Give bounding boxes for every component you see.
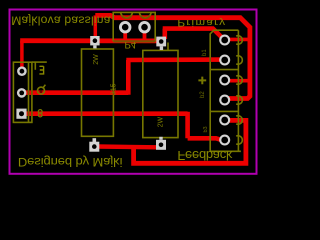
svg-text:2W: 2W — [157, 117, 164, 128]
wire: J1 pin3 across, down, to P3 pad 2 — [22, 112, 222, 140]
svg-text:2W: 2W — [93, 54, 100, 65]
small reference labels — [93, 49, 209, 133]
wire: P1 pad1 stub to right rail — [228, 38, 249, 42]
wire: P3 upper pad stub, lower rail, bottom run to junction — [134, 120, 246, 163]
svg-text:b2: b2 — [200, 91, 206, 98]
J1 pad 3 (square) — [16, 109, 26, 119]
svg-text:Feedback: Feedback — [177, 148, 233, 163]
wire: bottom run between square pads — [97, 144, 158, 149]
component W2b (switch) outline — [143, 50, 178, 137]
wire: J1 pin1 up to top net — [20, 41, 24, 71]
P4 screw bump A — [121, 13, 133, 18]
svg-text:315: 315 — [111, 83, 118, 95]
svg-text:b1: b1 — [202, 49, 208, 56]
svg-text:Designed by Majki: Designed by Majki — [18, 155, 122, 169]
text: Designed by Majki — [18, 155, 122, 169]
terminal pads P1.1 P1.2 P2.1 P2.2 P3.1 P3.2 — [219, 35, 230, 146]
terminal blocks P1/P2/P3 outline — [210, 30, 238, 151]
terminal screw circles — [236, 36, 242, 45]
wire: top rail across to right rail, down to P1 lower stub — [95, 15, 250, 98]
wire: top-right square pad up and across into P1 pad 1 — [163, 29, 225, 40]
J1 pad 2 — [17, 88, 27, 98]
wire: P4 left square pad up to top jog — [94, 15, 98, 39]
wire: J1 pin2 across, up, to P1 pad 2 — [22, 60, 225, 95]
square pad bottom-left (pot pin) — [89, 138, 99, 152]
text: Majklova basslina — [11, 14, 111, 28]
J1 pin marker 8 glyph — [38, 110, 42, 114]
square pad bottom-right (switch pin) — [156, 137, 166, 150]
silk-over-copper blend segments — [29, 16, 211, 116]
text: Primary — [177, 17, 226, 28]
wire: P4 pad A drop — [123, 27, 127, 41]
board edge outline (Edge.Cuts) — [10, 10, 257, 174]
wire: P2 pad1 (+) stub to right rail — [229, 79, 250, 83]
terminal block P4 outline — [113, 12, 155, 41]
svg-text:b3: b3 — [203, 126, 209, 132]
P4 screw bump B — [139, 13, 151, 18]
J1 pin number 3 glyph — [39, 66, 43, 74]
J1 pad 1 — [17, 66, 27, 76]
connector J1 outline — [13, 62, 32, 122]
P4 pad B — [138, 21, 150, 33]
wire: P4 pad B drop — [143, 27, 147, 41]
silk stub right of P4 — [167, 43, 169, 51]
label P4 — [125, 40, 137, 50]
J1 pin marker ring glyph — [38, 87, 45, 94]
square pad top-right (switch pin) — [156, 37, 166, 50]
text: Feedback — [177, 148, 233, 163]
svg-text:Primary: Primary — [177, 17, 226, 28]
svg-text:Majklova basslina: Majklova basslina — [11, 14, 111, 28]
component W2 (pot) outline — [82, 49, 114, 136]
label + (battery plus) — [198, 77, 206, 85]
P4 pad A — [119, 21, 131, 33]
svg-text:P4: P4 — [125, 40, 137, 50]
square pad top-left (pot pin) — [90, 36, 99, 48]
